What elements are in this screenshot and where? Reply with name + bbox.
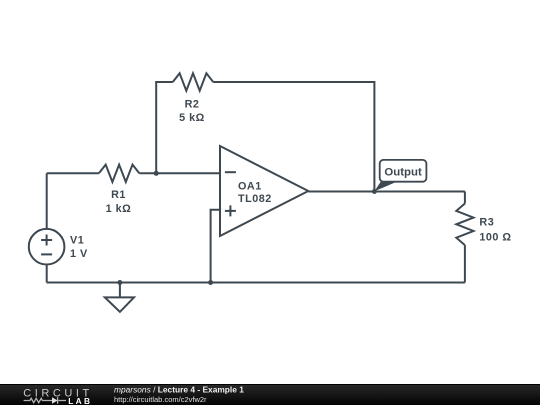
svg-text:LAB: LAB — [68, 396, 92, 405]
svg-text:R2: R2 — [185, 99, 200, 111]
svg-text:100 Ω: 100 Ω — [479, 231, 511, 243]
svg-text:mparsons / Lecture 4 - Example: mparsons / Lecture 4 - Example 1 — [114, 385, 244, 395]
svg-text:V1: V1 — [70, 235, 84, 247]
svg-text:TL082: TL082 — [238, 193, 272, 205]
svg-text:1 V: 1 V — [70, 248, 88, 260]
svg-text:OA1: OA1 — [238, 180, 262, 192]
svg-text:http://circuitlab.com/c2vfw2r: http://circuitlab.com/c2vfw2r — [114, 395, 207, 404]
svg-text:R3: R3 — [479, 217, 494, 229]
svg-text:5 kΩ: 5 kΩ — [179, 112, 205, 124]
svg-text:R1: R1 — [111, 189, 126, 201]
svg-text:1 kΩ: 1 kΩ — [106, 203, 132, 215]
svg-text:Output: Output — [384, 167, 422, 179]
